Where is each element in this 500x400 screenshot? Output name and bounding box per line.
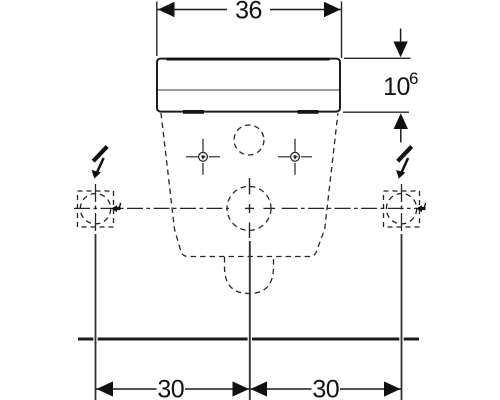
arrowhead down of dim 10	[393, 42, 407, 58]
svg-text:30: 30	[312, 376, 339, 400]
outlet circle vertical centerline upper dash	[249, 178, 251, 195]
cistern divider line	[158, 89, 339, 91]
bottom dim double arrowhead center right	[251, 381, 268, 396]
flush pipe dashed circle	[234, 125, 264, 155]
bottom dimension line segments	[96, 388, 157, 390]
svg-text:6: 6	[409, 69, 418, 88]
outlet circle center cross vertical	[249, 204, 251, 213]
WC bowl dashed outline	[161, 113, 338, 257]
left connection dashed square	[78, 191, 114, 227]
svg-text:30: 30	[157, 376, 184, 400]
outlet pipe dashed circle	[227, 186, 271, 230]
bottom dim arrowhead far left	[97, 381, 114, 396]
right connection vertical centerline dashed part	[401, 184, 403, 231]
floor line	[78, 338, 419, 341]
left connection vertical centerline dashed part	[95, 184, 97, 231]
right fixing point circle	[291, 152, 300, 161]
stem below bottom arrow of dim 10	[400, 129, 402, 143]
svg-text:10: 10	[383, 73, 410, 101]
extension line bottom of dim 10	[343, 111, 409, 113]
arrowhead right of dim 36	[324, 2, 341, 18]
right fixing point horizontal centerline	[278, 156, 312, 158]
right fixing point center dot	[294, 155, 297, 158]
left fixing point vertical centerline	[202, 139, 204, 175]
center vertical solid line to bottom	[249, 241, 251, 400]
cistern body outline	[157, 59, 340, 112]
left connection dashed circle	[80, 194, 110, 224]
stem above top arrow of dim 10	[400, 29, 402, 43]
bottom dim double arrowhead center left	[233, 381, 250, 396]
right connection vertical solid line to bottom	[401, 234, 403, 400]
left fixing point horizontal centerline	[186, 156, 220, 158]
center vertical centerline dashed part	[249, 223, 251, 239]
extension line top of dim 10	[344, 57, 411, 59]
dimension line 36 right segment	[270, 9, 341, 11]
main horizontal centerline right span	[282, 207, 425, 209]
right fixing point vertical centerline	[294, 139, 296, 175]
outlet circle center cross horizontal	[245, 207, 254, 209]
dimension line 36 left segment	[157, 9, 227, 11]
right connection dashed circle	[386, 194, 416, 224]
arrowhead up of dim 10	[394, 113, 408, 129]
extension line right of dim 36	[341, 2, 343, 59]
left connection vertical solid line to bottom	[95, 234, 97, 400]
svg-text:36: 36	[235, 0, 262, 25]
left water symbol arrow with hook	[111, 203, 120, 212]
left fixing point center dot	[202, 155, 205, 158]
left lightning bolt	[92, 146, 108, 178]
main horizontal centerline dash at outlet circle right edge	[263, 207, 275, 209]
right water symbol arrow with hook	[416, 203, 425, 212]
arrowhead left of dim 36	[158, 2, 175, 18]
extension line left of dim 36	[156, 2, 158, 57]
right connection dashed square	[384, 191, 420, 227]
cistern left foot	[183, 110, 204, 114]
cistern lid top thick line	[167, 58, 330, 61]
bowl outlet U shape	[225, 257, 274, 294]
right lightning bolt	[396, 146, 412, 178]
bottom dim arrowhead far right	[384, 381, 401, 396]
cistern right foot	[298, 110, 319, 114]
main horizontal centerline left span	[74, 207, 229, 209]
left fixing point circle	[199, 152, 208, 161]
